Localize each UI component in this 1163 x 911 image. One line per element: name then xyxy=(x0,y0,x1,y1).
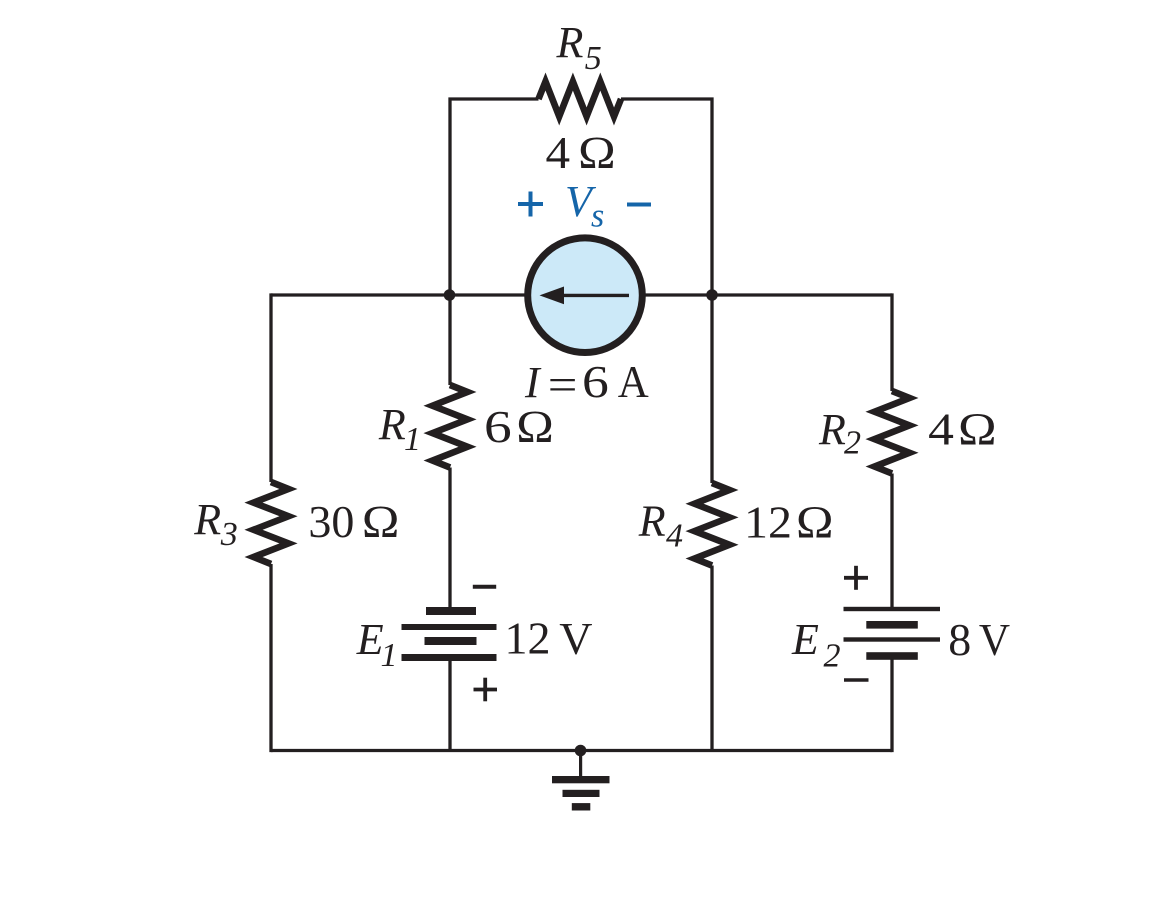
svg-text:2: 2 xyxy=(844,425,861,462)
svg-text:12: 12 xyxy=(744,497,792,548)
minus sign above E1 xyxy=(473,585,496,589)
arrow inside current source xyxy=(560,294,629,297)
wire top-left corner xyxy=(450,99,539,295)
svg-text:R: R xyxy=(556,18,584,67)
wire R1 branch upper xyxy=(448,295,451,385)
svg-text:s: s xyxy=(591,198,604,235)
wire left branch lower xyxy=(269,564,272,752)
svg-text:A: A xyxy=(618,356,649,407)
resistor R2 xyxy=(875,391,910,474)
wire R4 branch upper xyxy=(710,295,713,483)
wire middle horizontal xyxy=(271,293,892,296)
svg-text:Ω: Ω xyxy=(795,497,834,548)
svg-text:6: 6 xyxy=(484,401,512,452)
wire R1 branch middle xyxy=(448,468,451,612)
battery E2 xyxy=(844,607,941,660)
svg-text:30: 30 xyxy=(308,496,354,547)
node Vs plus sign (blue) xyxy=(518,192,543,217)
svg-text:E: E xyxy=(791,615,819,664)
svg-text:1: 1 xyxy=(381,637,398,674)
svg-text:Ω: Ω xyxy=(957,404,997,455)
svg-text:2: 2 xyxy=(824,638,841,675)
svg-text:8: 8 xyxy=(948,614,971,665)
svg-text:4: 4 xyxy=(546,127,571,178)
wire R1 branch lower xyxy=(448,658,451,751)
svg-text:12: 12 xyxy=(505,613,551,664)
node junction dot left xyxy=(444,289,456,301)
svg-text:V: V xyxy=(979,614,1010,665)
resistor R3 xyxy=(254,482,289,564)
svg-text:6: 6 xyxy=(582,356,609,407)
node junction dot ground xyxy=(575,745,587,757)
ground xyxy=(552,751,610,811)
battery E1 xyxy=(402,607,497,661)
svg-text:4: 4 xyxy=(928,404,954,455)
resistor R5 xyxy=(539,82,622,117)
wire right branch lower xyxy=(890,656,893,752)
node Vs minus sign (blue) xyxy=(627,203,651,207)
wire left branch upper xyxy=(269,293,272,482)
current source I xyxy=(528,238,643,353)
plus sign above E2 xyxy=(844,566,868,590)
svg-text:R: R xyxy=(818,405,846,454)
resistor R1 xyxy=(433,385,468,468)
svg-text:R: R xyxy=(193,495,221,544)
svg-text:R: R xyxy=(638,497,666,546)
wire bottom xyxy=(271,749,892,752)
node junction dot right xyxy=(706,289,718,301)
wire top-right corner xyxy=(621,99,712,295)
minus sign below E2 xyxy=(844,678,869,681)
svg-text:R: R xyxy=(378,400,406,449)
svg-text:I: I xyxy=(524,358,542,407)
svg-text:3: 3 xyxy=(220,516,238,553)
svg-text:5: 5 xyxy=(585,40,602,77)
wire R4 branch lower xyxy=(710,566,713,751)
svg-text:1: 1 xyxy=(404,421,421,458)
svg-text:4: 4 xyxy=(666,518,683,555)
resistor R4 xyxy=(695,483,730,566)
svg-text:V: V xyxy=(559,613,592,664)
svg-text:Ω: Ω xyxy=(578,127,617,178)
wire right branch upper xyxy=(890,293,893,391)
wire right branch middle xyxy=(890,474,893,610)
svg-text:Ω: Ω xyxy=(361,496,400,547)
plus sign below E1 xyxy=(474,678,498,702)
svg-text:Ω: Ω xyxy=(516,401,555,452)
